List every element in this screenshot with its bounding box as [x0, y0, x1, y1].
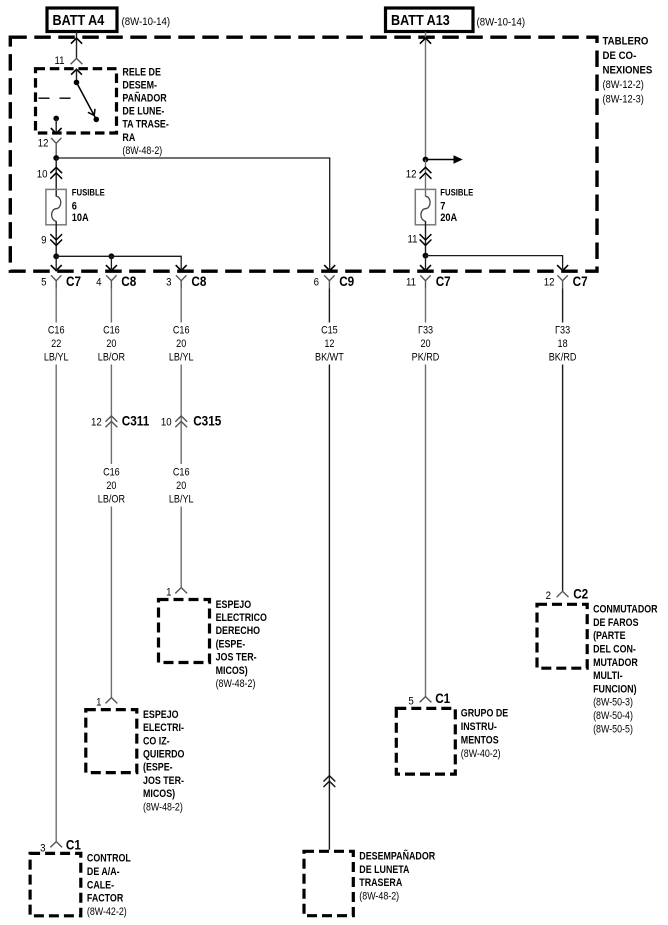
label (8W-10-14) for BATT A4 [122, 15, 171, 28]
wire C16 22 LB/YL upper segment [55, 289, 57, 323]
relay contact dot (lower right) [94, 117, 100, 123]
connector name C1 (CONTROL) [66, 837, 81, 853]
svg-text:CALE-: CALE- [87, 880, 114, 892]
connector name C1 (GRUPO) [435, 690, 450, 706]
svg-text:MENTOS: MENTOS [461, 735, 499, 747]
svg-text:(8W-40-2): (8W-40-2) [461, 749, 501, 761]
wire horizontal splice to C9 branch [56, 158, 330, 269]
pin 10 number [37, 168, 48, 181]
arrow up into BATT A13 [420, 38, 431, 44]
fuse F7 body [415, 189, 435, 224]
wire BK/RD to CONMUTADOR [562, 365, 564, 592]
svg-text:ELECTRICO: ELECTRICO [216, 612, 268, 624]
wire C16 20 LB/OR upper segment [110, 289, 112, 323]
label CONTROL DE A/A-CALEFACTOR [87, 853, 131, 918]
node splice at second column [109, 253, 115, 259]
svg-text:C8: C8 [121, 273, 136, 289]
svg-text:ESPEJO: ESPEJO [143, 709, 179, 721]
svg-text:PK/RD: PK/RD [412, 352, 440, 364]
svg-text:BATT A4: BATT A4 [53, 11, 105, 28]
component GRUPO DE INSTRUMENTOS box [396, 708, 455, 774]
svg-text:LB/OR: LB/OR [98, 352, 125, 364]
svg-text:FUSIBLE: FUSIBLE [440, 187, 473, 198]
node splice fuse 7 output [423, 253, 429, 259]
pin 11 number [54, 54, 64, 67]
svg-text:JOS TER-: JOS TER- [216, 652, 257, 664]
svg-text:C16: C16 [173, 467, 190, 479]
label TABLERO DE CONEXIONES [603, 35, 653, 106]
wire splice bus to third column [56, 256, 181, 269]
svg-text:12: 12 [91, 416, 102, 429]
pin 3 C8 exit connector [166, 273, 206, 289]
wire BK/WT long segment to DESEMPANADOR [328, 365, 330, 850]
node splice to C7/C8 pins [53, 253, 59, 259]
svg-text:5: 5 [408, 695, 413, 708]
wire stub pin 11 C7 [425, 256, 427, 269]
label RELE DE DESEMPANADOR DE LUNETA TRASERA [122, 67, 168, 158]
svg-text:C7: C7 [66, 273, 81, 289]
wire C15 12 BK/WT upper segment [328, 289, 330, 323]
svg-text:LB/YL: LB/YL [169, 494, 194, 506]
svg-text:(8W-42-2): (8W-42-2) [87, 906, 127, 918]
svg-text:MULTI-: MULTI- [593, 670, 622, 682]
arrow down C9 branch through tablero border [324, 265, 335, 271]
svg-text:(8W-50-3): (8W-50-3) [593, 697, 633, 709]
pin 12 number [38, 137, 49, 150]
fuse F7 element (S-curve) [421, 196, 430, 221]
pin 12 C7 exit connector [544, 273, 588, 289]
svg-text:4: 4 [96, 276, 101, 289]
wire relay junction down to fuse 6 [55, 158, 57, 197]
svg-text:DE FAROS: DE FAROS [593, 617, 639, 629]
arrow up into BATT A4 [71, 38, 82, 44]
node junction on A13 feed [423, 157, 429, 163]
svg-text:C315: C315 [193, 413, 221, 429]
component ESPEJO ELECTRICO DERECHO box [159, 600, 210, 663]
relay coil linkage (dashed) [39, 97, 77, 99]
pin 3 number [40, 842, 45, 855]
relay armature (diagonal switch blade) [77, 82, 97, 119]
svg-text:FUNCION): FUNCION) [593, 684, 636, 696]
svg-text:DE CO-: DE CO- [603, 49, 637, 62]
arrow down pin 5 C7 [51, 265, 62, 271]
fuse F6 body [46, 189, 66, 224]
label wire C16 20 LB/YL (below C315) [169, 467, 194, 506]
pin 3 entry chevron at CONTROL [50, 842, 62, 848]
svg-text:CO IZ-: CO IZ- [143, 736, 170, 748]
connector name C311 [122, 413, 149, 429]
svg-text:2: 2 [546, 589, 551, 602]
pin 12 double chevron connector [420, 167, 432, 179]
svg-text:DE LUNE-: DE LUNE- [122, 106, 164, 118]
wire C16 20 LB/YL upper segment [180, 289, 182, 323]
wire relay output to pin 12 [55, 118, 57, 133]
svg-text:(ESPE-: (ESPE- [216, 639, 246, 651]
svg-text:RA: RA [122, 132, 135, 144]
svg-text:RELE DE: RELE DE [122, 67, 161, 79]
svg-text:DERECHO: DERECHO [216, 626, 261, 638]
svg-text:(8W-50-5): (8W-50-5) [593, 724, 633, 736]
label wire G33 20 PK/RD [412, 325, 440, 364]
connector C315 double chevron [175, 416, 187, 427]
svg-text:TA TRASE-: TA TRASE- [122, 119, 168, 131]
label wire C16 20 LB/OR (below C311) [98, 467, 125, 506]
wire relay internal feed [76, 69, 78, 82]
pin 12 number (fuse 7) [406, 168, 417, 181]
wire junction to fuse 7 [425, 160, 427, 197]
svg-text:3: 3 [166, 276, 171, 289]
svg-text:TABLERO: TABLERO [603, 35, 649, 48]
svg-text:CONTROL: CONTROL [87, 853, 131, 865]
svg-text:MICOS): MICOS) [143, 788, 175, 800]
label FUSIBLE 6 10A [72, 187, 105, 224]
svg-text:ELECTRI-: ELECTRI- [143, 722, 184, 734]
svg-text:DESEM-: DESEM- [122, 80, 157, 92]
svg-text:INSTRU-: INSTRU- [461, 722, 497, 734]
svg-text:C16: C16 [103, 467, 120, 479]
svg-text:C7: C7 [436, 273, 451, 289]
svg-text:18: 18 [558, 338, 569, 350]
svg-text:LB/YL: LB/YL [169, 352, 194, 364]
pin 9 double chevron connector [50, 234, 62, 245]
relay pin 11 entry arrow [71, 69, 82, 74]
svg-text:DEL CON-: DEL CON- [593, 644, 636, 656]
pin 12 Y connector symbol [51, 138, 61, 156]
pin 4 C8 exit connector [96, 273, 136, 289]
pin 10 number (C315) [161, 416, 172, 429]
relay armature arrowhead [88, 109, 95, 116]
pin 1 number (ESPEJO DERECHO) [166, 586, 171, 599]
node BATT A13 (feed box) [386, 8, 474, 32]
connector name C2 (CONMUTADOR) [573, 586, 588, 602]
pin 11 C7 exit connector [406, 273, 451, 289]
wire BATT A13 feed [425, 32, 427, 160]
node splice junction below relay [53, 155, 59, 161]
label CONMUTADOR DE FAROS [593, 604, 657, 736]
wire stub pin 4 [110, 256, 112, 269]
svg-text:1: 1 [166, 586, 171, 599]
label DESEMPANADOR DE LUNETA TRASERA [359, 851, 435, 903]
svg-text:12: 12 [406, 168, 417, 181]
arrow down pin 11 C7 [420, 265, 431, 271]
label wire C16 20 LB/OR [98, 325, 125, 364]
inline double chevron on BK/WT wire [324, 776, 336, 787]
label wire C16 22 LB/YL [44, 325, 69, 364]
svg-text:12: 12 [544, 276, 555, 289]
svg-text:12: 12 [38, 137, 49, 150]
wire PK/RD to GRUPO [425, 365, 427, 697]
svg-text:20: 20 [176, 480, 187, 492]
svg-text:20: 20 [176, 338, 187, 350]
svg-text:12: 12 [324, 338, 335, 350]
svg-text:C16: C16 [48, 325, 65, 337]
pin 11 number (fuse 7) [407, 233, 417, 246]
wire stub pin 5 [55, 256, 57, 269]
label wire C16 20 LB/YL [169, 325, 194, 364]
junction block TABLERO DE CONEXIONES (dashed outline) [10, 37, 597, 271]
svg-text:22: 22 [51, 338, 62, 350]
pin 1 entry chevron at ESPEJO IZQUIERDO [106, 698, 118, 704]
svg-text:C16: C16 [103, 325, 120, 337]
arrow down pin 4 C8 [106, 265, 117, 271]
svg-text:(PARTE: (PARTE [593, 631, 626, 643]
node BATT A4 (feed box) [47, 8, 117, 32]
pin 2 number (CONMUTADOR) [546, 589, 551, 602]
pin 10 double chevron connector [50, 167, 62, 179]
svg-text:10: 10 [37, 168, 48, 181]
svg-text:11: 11 [406, 276, 416, 289]
svg-text:LB/OR: LB/OR [98, 494, 125, 506]
svg-text:ESPEJO: ESPEJO [216, 599, 252, 611]
svg-text:DE LUNETA: DE LUNETA [359, 864, 409, 876]
svg-text:(8W-50-4): (8W-50-4) [593, 710, 633, 722]
svg-text:(8W-12-2): (8W-12-2) [603, 79, 644, 91]
svg-text:C1: C1 [435, 690, 450, 706]
svg-text:NEXIONES: NEXIONES [603, 64, 653, 77]
pin 1 entry chevron at ESPEJO DERECHO [175, 588, 187, 594]
svg-text:5: 5 [41, 276, 46, 289]
label (8W-10-14) for BATT A13 [477, 16, 526, 29]
pin 5 number (GRUPO) [408, 695, 413, 708]
fuse F6 element (S-curve) [52, 196, 61, 221]
wire G33 18 BK/RD upper segment [562, 289, 564, 323]
svg-text:DE A/A-: DE A/A- [87, 866, 120, 878]
relay K1 RELE DE DESEMPANADOR box [36, 69, 117, 133]
svg-text:20A: 20A [440, 212, 458, 224]
connector C311 double chevron [106, 416, 118, 427]
svg-text:20: 20 [106, 338, 117, 350]
svg-text:(8W-48-2): (8W-48-2) [216, 678, 256, 690]
svg-text:10A: 10A [72, 212, 90, 224]
wire F33 20 PK/RD upper segment [425, 289, 427, 323]
label FUSIBLE 7 20A [440, 187, 473, 224]
svg-text:11: 11 [407, 233, 417, 246]
svg-text:C15: C15 [321, 325, 338, 337]
svg-text:BK/RD: BK/RD [549, 352, 577, 364]
svg-text:GRUPO DE: GRUPO DE [461, 708, 509, 720]
pin 12 number (C311) [91, 416, 102, 429]
pin 9 number [41, 234, 46, 247]
wire fuse 6 to pin 9 [55, 221, 57, 256]
wire splice bus to pin 12 C7 [426, 256, 563, 269]
label ESPEJO ELECTRICO DERECHO [216, 599, 268, 690]
svg-text:JOS TER-: JOS TER- [143, 775, 184, 787]
svg-text:(ESPE-: (ESPE- [143, 762, 173, 774]
svg-text:9: 9 [41, 234, 46, 247]
wire segment to C311 [110, 365, 112, 465]
svg-text:MUTADOR: MUTADOR [593, 657, 638, 669]
wire arrow tap to the right [426, 159, 455, 161]
wire segment to C315 [180, 365, 182, 465]
svg-text:6: 6 [72, 201, 77, 213]
pin 1 number (ESPEJO IZQUIERDO) [96, 696, 101, 709]
pin 11 double chevron connector [420, 234, 432, 245]
svg-text:11: 11 [54, 54, 64, 67]
svg-text:CONMUTADOR: CONMUTADOR [593, 604, 657, 616]
svg-text:TRASERA: TRASERA [359, 878, 402, 890]
pin 2 entry chevron at CONMUTADOR [557, 591, 569, 597]
label GRUPO DE INSTRUMENTOS [461, 708, 509, 760]
pin 11 chevron [71, 58, 83, 64]
svg-text:Γ33: Γ33 [555, 325, 570, 337]
svg-text:7: 7 [440, 201, 445, 213]
svg-text:C311: C311 [122, 413, 149, 429]
svg-text:3: 3 [40, 842, 45, 855]
svg-text:C2: C2 [573, 586, 588, 602]
svg-text:BATT A13: BATT A13 [391, 11, 450, 28]
svg-text:6: 6 [314, 276, 319, 289]
pin 5 C7 exit connector [41, 273, 81, 289]
arrow down pin 3 C8 [176, 265, 187, 271]
pin 5 entry chevron at GRUPO [420, 697, 432, 703]
svg-text:(8W-10-14): (8W-10-14) [477, 16, 526, 29]
svg-text:(8W-10-14): (8W-10-14) [122, 15, 171, 28]
svg-text:20: 20 [106, 480, 117, 492]
svg-text:BK/WT: BK/WT [315, 352, 344, 364]
arrow down pin 12 C7 [557, 265, 568, 271]
svg-text:C7: C7 [573, 273, 588, 289]
relay common contact dot [74, 80, 80, 86]
svg-text:(8W-48-2): (8W-48-2) [143, 802, 183, 814]
svg-text:1: 1 [96, 696, 101, 709]
svg-text:LB/YL: LB/YL [44, 352, 69, 364]
wire fuse 7 to pin 11 [425, 221, 427, 256]
svg-text:FACTOR: FACTOR [87, 893, 123, 905]
svg-text:(8W-12-3): (8W-12-3) [603, 94, 644, 106]
solid arrowhead (feed continues) [454, 155, 463, 163]
label wire G33 18 BK/RD [549, 325, 577, 364]
svg-text:C8: C8 [191, 273, 206, 289]
wire to ESPEJO DERECHO [180, 507, 182, 588]
svg-text:MICOS): MICOS) [216, 665, 248, 677]
label ESPEJO ELECTRICO IZQUIERDO [143, 709, 185, 813]
svg-text:C16: C16 [173, 325, 190, 337]
relay output contact dot [53, 116, 59, 122]
component CONMUTADOR DE FAROS box [537, 604, 587, 668]
svg-text:DESEMPAÑADOR: DESEMPAÑADOR [359, 851, 435, 863]
svg-text:(8W-48-2): (8W-48-2) [122, 145, 162, 157]
wire C16 22 LB/YL lower segment [55, 365, 57, 842]
svg-text:QUIERDO: QUIERDO [143, 749, 185, 761]
component DESEMPANADOR DE LUNETA TRASERA box [304, 851, 353, 915]
svg-text:Γ33: Γ33 [418, 325, 433, 337]
relay pin 12 exit arrow [51, 128, 62, 133]
svg-text:10: 10 [161, 416, 172, 429]
connector name C315 [193, 413, 221, 429]
svg-text:PAÑADOR: PAÑADOR [122, 93, 166, 105]
component ESPEJO ELECTRICO IZQUIERDO box [86, 710, 137, 773]
svg-text:C9: C9 [339, 273, 354, 289]
svg-text:20: 20 [420, 338, 431, 350]
svg-text:FUSIBLE: FUSIBLE [72, 187, 105, 198]
svg-text:(8W-48-2): (8W-48-2) [359, 891, 399, 903]
svg-text:C1: C1 [66, 837, 81, 853]
pin 6 C9 exit connector [314, 273, 355, 289]
wire to ESPEJO IZQUIERDO [110, 507, 112, 698]
wire BATT A4 to relay pin 11 [76, 32, 78, 59]
label wire C15 12 BK/WT [315, 325, 344, 364]
component CONTROL DE A/A-CALEFACTOR box [30, 853, 81, 915]
